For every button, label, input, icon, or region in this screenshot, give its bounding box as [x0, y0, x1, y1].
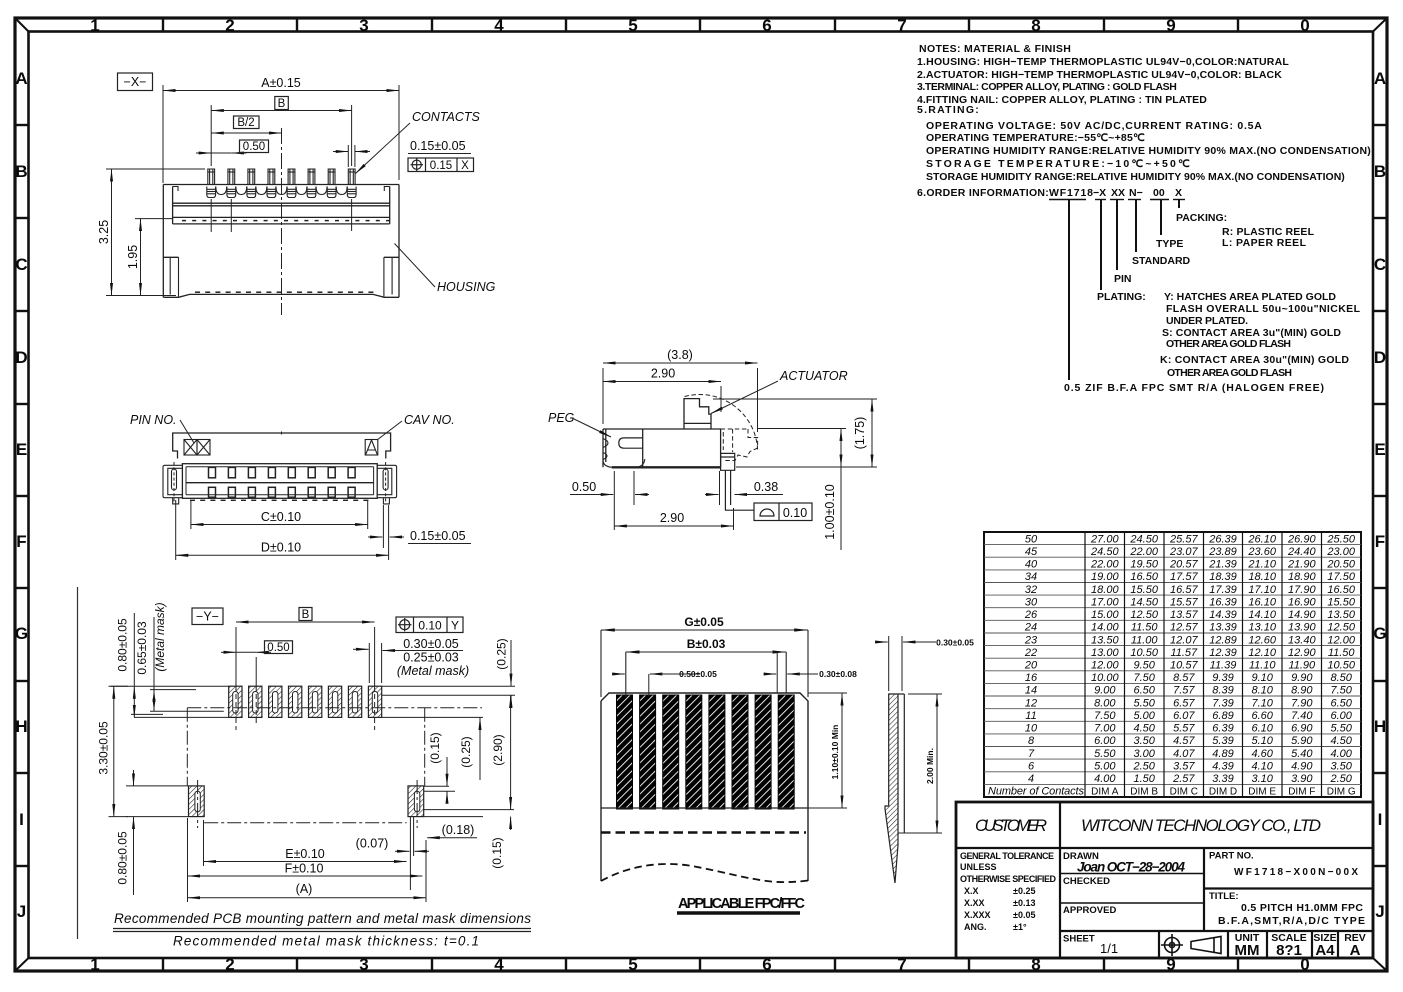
svg-text:23.60: 23.60	[1247, 546, 1276, 558]
svg-text:7.39: 7.39	[1212, 697, 1233, 709]
svg-text:3.50: 3.50	[1133, 735, 1155, 747]
svg-text:7: 7	[897, 16, 906, 35]
svg-text:16: 16	[1025, 672, 1038, 684]
projection symbol	[1161, 934, 1221, 956]
svg-text:18.10: 18.10	[1248, 571, 1276, 583]
svg-text:J: J	[17, 902, 26, 921]
svg-text:5.40: 5.40	[1291, 748, 1313, 760]
svg-text:4: 4	[494, 955, 504, 974]
left reference vertical line	[77, 587, 79, 939]
dim 1.10±0.10 Min	[841, 693, 843, 808]
svg-text:Y: HATCHES AREA PLATED GOLD: Y: HATCHES AREA PLATED GOLD	[1164, 291, 1336, 303]
pin no. marker boxes	[184, 440, 210, 456]
svg-text:6.57: 6.57	[1173, 697, 1195, 709]
svg-text:10.50: 10.50	[1130, 647, 1158, 659]
svg-text:14.90: 14.90	[1288, 609, 1316, 621]
svg-text:C: C	[1374, 255, 1386, 274]
svg-text:0.30±0.05: 0.30±0.05	[403, 637, 459, 651]
svg-text:2.50: 2.50	[1329, 773, 1352, 785]
svg-text:3: 3	[359, 16, 368, 35]
svg-text:6.07: 6.07	[1173, 710, 1195, 722]
dim 1.95	[135, 219, 172, 296]
svg-text:E±0.10: E±0.10	[285, 847, 325, 861]
svg-text:0.50: 0.50	[243, 141, 265, 153]
svg-text:4.89: 4.89	[1212, 748, 1233, 760]
svg-text:7.90: 7.90	[1291, 697, 1313, 709]
svg-text:G±0.05: G±0.05	[684, 615, 724, 629]
svg-text:(2.90): (2.90)	[491, 734, 505, 765]
side view body	[603, 429, 721, 467]
svg-text:D: D	[15, 348, 27, 367]
dim B pads	[236, 621, 375, 623]
dim (A)	[188, 897, 427, 899]
svg-text:DIM B: DIM B	[1130, 787, 1158, 798]
dim (0.15) mid	[446, 757, 448, 786]
svg-text:2: 2	[225, 955, 234, 974]
profile frame 0.10	[754, 503, 812, 521]
svg-text:4: 4	[1028, 773, 1034, 785]
svg-text:6.10: 6.10	[1251, 723, 1273, 735]
svg-text:12: 12	[1025, 697, 1037, 709]
dim 0.65±0.03	[153, 617, 155, 711]
svg-text:WF1718: WF1718	[1049, 187, 1093, 199]
svg-text:24.50: 24.50	[1090, 546, 1119, 558]
svg-text:0.80±0.05: 0.80±0.05	[116, 831, 130, 885]
svg-text:B: B	[1374, 162, 1386, 181]
svg-text:6.50: 6.50	[1133, 685, 1155, 697]
svg-text:6.39: 6.39	[1212, 723, 1233, 735]
actuator open dashed	[685, 394, 758, 460]
svg-text:0.5 PITCH H1.0MM FPC: 0.5 PITCH H1.0MM FPC	[1241, 902, 1363, 914]
svg-text:(0.15): (0.15)	[490, 837, 504, 868]
svg-text:23.89: 23.89	[1208, 546, 1237, 558]
svg-text:11.39: 11.39	[1210, 660, 1237, 672]
svg-text:5.50: 5.50	[1133, 697, 1155, 709]
title block unit/scale/size/rev labels	[1235, 932, 1366, 944]
svg-text:7.40: 7.40	[1291, 710, 1313, 722]
svg-text:3.39: 3.39	[1212, 773, 1233, 785]
svg-text:6.89: 6.89	[1212, 710, 1233, 722]
svg-text:7.00: 7.00	[1094, 723, 1116, 735]
svg-text:GENERAL TOLERANCE: GENERAL TOLERANCE	[960, 851, 1054, 861]
svg-text:7.50: 7.50	[1133, 672, 1155, 684]
svg-text:12.90: 12.90	[1288, 647, 1316, 659]
svg-text:10.00: 10.00	[1091, 672, 1119, 684]
border tick marks top/bottom	[163, 18, 1238, 971]
pcb chain outline	[187, 708, 482, 828]
svg-text:2.90: 2.90	[651, 367, 675, 381]
svg-text:XX: XX	[1111, 187, 1125, 199]
svg-text:FLASH OVERALL 50u~100u"NICKE: FLASH OVERALL 50u~100u"NICKEL	[1166, 303, 1361, 315]
border zone letters right	[1373, 69, 1386, 921]
svg-text:10.57: 10.57	[1170, 660, 1198, 672]
dim 2.90 bottom	[614, 525, 733, 527]
feature control frame 0.10 Y	[396, 617, 463, 633]
svg-text:0.80±0.05: 0.80±0.05	[116, 618, 130, 672]
svg-text:X.X: X.X	[964, 886, 979, 896]
housing bumps between pins	[216, 187, 347, 195]
svg-text:13.39: 13.39	[1209, 622, 1237, 634]
extension lines right	[713, 399, 877, 467]
svg-text:14.10: 14.10	[1248, 609, 1276, 621]
svg-text:00: 00	[1153, 187, 1165, 199]
svg-text:3.00: 3.00	[1133, 748, 1155, 760]
svg-text:5.50: 5.50	[1330, 723, 1352, 735]
svg-text:G: G	[1373, 624, 1386, 643]
cross-section view	[97, 73, 496, 315]
svg-text:E: E	[16, 440, 27, 459]
svg-text:DIM D: DIM D	[1209, 787, 1237, 798]
svg-text:−Y−: −Y−	[196, 610, 219, 624]
svg-text:11: 11	[1025, 710, 1036, 722]
svg-text:0.10: 0.10	[783, 506, 807, 520]
svg-text:B: B	[15, 162, 27, 181]
svg-text:16.90: 16.90	[1288, 596, 1316, 608]
fpc tail dim 2.00 Min	[936, 694, 938, 833]
dim (2.90)	[510, 696, 512, 810]
front view main body	[182, 464, 377, 499]
fpc break wavy line	[601, 864, 808, 882]
svg-text:0.15±0.05: 0.15±0.05	[410, 529, 466, 543]
svg-text:11.50: 11.50	[1328, 647, 1356, 659]
dim 1.00±0.10	[840, 429, 842, 551]
svg-text:B: B	[302, 609, 310, 621]
svg-text:ACTUATOR: ACTUATOR	[779, 369, 848, 383]
svg-text:12.00: 12.00	[1091, 660, 1119, 672]
svg-text:5.00: 5.00	[1133, 710, 1155, 722]
svg-text:6.00: 6.00	[1330, 710, 1352, 722]
fpc tail strip	[885, 694, 898, 883]
svg-text:2.90: 2.90	[660, 511, 684, 525]
svg-text:12.50: 12.50	[1327, 622, 1355, 634]
svg-text:4.07: 4.07	[1173, 748, 1195, 760]
svg-text:8.00: 8.00	[1094, 697, 1116, 709]
svg-text:Recommended PCB mounting pa: Recommended PCB mounting pattern and met…	[114, 911, 531, 926]
svg-text:45: 45	[1025, 546, 1038, 558]
svg-text:4: 4	[494, 16, 504, 35]
svg-text:(0.18): (0.18)	[442, 823, 475, 837]
svg-text:20.57: 20.57	[1169, 559, 1198, 571]
svg-text:4.00: 4.00	[1330, 748, 1352, 760]
peg slot	[619, 438, 643, 448]
svg-text:0.38: 0.38	[754, 480, 778, 494]
svg-text:34: 34	[1025, 571, 1037, 583]
svg-text:UNLESS: UNLESS	[960, 862, 997, 872]
border tick marks left/right	[15, 125, 1387, 866]
svg-text:(0.25): (0.25)	[495, 638, 509, 669]
svg-text:13.50: 13.50	[1327, 609, 1355, 621]
dimension table values	[1024, 533, 1356, 785]
dim 0.30±0.08 fpc	[764, 652, 818, 693]
svg-text:0.25±0.03: 0.25±0.03	[403, 651, 459, 665]
svg-text:15.50: 15.50	[1327, 596, 1355, 608]
svg-text:16.39: 16.39	[1209, 596, 1237, 608]
svg-text:12.89: 12.89	[1209, 634, 1237, 646]
svg-text:8: 8	[1031, 16, 1040, 35]
svg-text:CHECKED: CHECKED	[1063, 876, 1110, 887]
svg-text:7.50: 7.50	[1330, 685, 1352, 697]
dim (0.25) top right	[510, 640, 512, 686]
svg-text:5.50: 5.50	[1094, 748, 1116, 760]
svg-text:9.39: 9.39	[1212, 672, 1233, 684]
svg-text:16.57: 16.57	[1170, 584, 1198, 596]
svg-text:13.40: 13.40	[1288, 634, 1316, 646]
order information part code	[1049, 187, 1182, 199]
svg-text:CAV NO.: CAV NO.	[404, 413, 455, 427]
housing serrations	[182, 221, 390, 293]
order code underlines	[1049, 199, 1185, 201]
svg-text:4.00: 4.00	[1094, 773, 1116, 785]
dim 0.15±0.05 pin thickness	[333, 145, 370, 167]
svg-text:8.10: 8.10	[1251, 685, 1273, 697]
svg-text:27.00: 27.00	[1090, 533, 1119, 545]
svg-text:26.90: 26.90	[1287, 533, 1316, 545]
svg-text:1.95: 1.95	[126, 245, 140, 269]
svg-text:1.00±0.10: 1.00±0.10	[823, 484, 837, 540]
svg-text:2.57: 2.57	[1172, 773, 1195, 785]
svg-text:SHEET: SHEET	[1063, 934, 1095, 945]
svg-text:A±0.15: A±0.15	[261, 76, 301, 90]
svg-text:16.50: 16.50	[1327, 584, 1355, 596]
border zone letters left	[15, 69, 28, 921]
svg-text:PACKING:: PACKING:	[1176, 212, 1227, 224]
fpc contact bars	[617, 695, 795, 809]
svg-text:K: CONTACT AREA 30u"(MIN) G: K: CONTACT AREA 30u"(MIN) GOLD	[1160, 354, 1349, 366]
front view	[130, 413, 471, 560]
svg-text:9.00: 9.00	[1094, 685, 1116, 697]
svg-text:3.57: 3.57	[1173, 761, 1195, 773]
svg-text:F±0.10: F±0.10	[285, 862, 324, 876]
svg-text:±1°: ±1°	[1013, 922, 1027, 932]
svg-text:6: 6	[762, 955, 771, 974]
svg-text:1: 1	[90, 955, 99, 974]
fpc view	[601, 615, 974, 913]
svg-text:H: H	[15, 717, 27, 736]
svg-text:25.57: 25.57	[1169, 533, 1198, 545]
svg-text:PEG: PEG	[548, 411, 575, 425]
svg-text:3.25: 3.25	[97, 220, 111, 244]
svg-text:A: A	[1374, 69, 1386, 88]
svg-text:5.39: 5.39	[1212, 735, 1233, 747]
svg-text:12.07: 12.07	[1170, 634, 1198, 646]
svg-text:19.50: 19.50	[1130, 559, 1158, 571]
svg-text:13.00: 13.00	[1091, 647, 1119, 659]
svg-text:8.90: 8.90	[1291, 685, 1313, 697]
svg-text:I: I	[19, 810, 24, 829]
svg-text:6.60: 6.60	[1251, 710, 1273, 722]
svg-text:10.50: 10.50	[1327, 660, 1355, 672]
svg-text:15.50: 15.50	[1130, 584, 1158, 596]
svg-text:20: 20	[1024, 660, 1038, 672]
side view	[548, 348, 877, 550]
dim C±0.10	[191, 500, 368, 529]
svg-text:B: B	[278, 98, 286, 110]
feature control frame 0.15 X	[408, 158, 474, 172]
pcb outline solid lines	[111, 686, 515, 816]
svg-text:7.10: 7.10	[1251, 697, 1273, 709]
fpc dashed line	[601, 831, 806, 833]
svg-text:(3.8): (3.8)	[667, 348, 693, 362]
svg-text:26.39: 26.39	[1208, 533, 1237, 545]
svg-text:13.10: 13.10	[1248, 622, 1276, 634]
svg-text:16.50: 16.50	[1130, 571, 1158, 583]
svg-text:G: G	[15, 624, 28, 643]
svg-text:A4: A4	[1315, 942, 1335, 959]
pcb pads row	[229, 686, 382, 717]
svg-text:14.50: 14.50	[1130, 596, 1158, 608]
svg-text:B/2: B/2	[237, 117, 254, 129]
dim 0.50 pads	[221, 651, 271, 653]
svg-text:APPROVED: APPROVED	[1063, 905, 1116, 916]
svg-text:B.F.A,SMT,R/A,D/C TYPE: B.F.A,SMT,R/A,D/C TYPE	[1218, 915, 1365, 927]
svg-text:X: X	[461, 160, 469, 172]
svg-text:9.90: 9.90	[1291, 672, 1313, 684]
svg-text:OPERATING HUMIDITY RANGE:REL: OPERATING HUMIDITY RANGE:RELATIVE HUMIDI…	[926, 145, 1371, 157]
dim (0.25) mid	[479, 723, 481, 780]
svg-text:L: PAPER REEL: L: PAPER REEL	[1222, 237, 1307, 249]
svg-text:0.15: 0.15	[430, 160, 452, 172]
dim F±0.10	[188, 818, 423, 902]
pcb big pad left	[189, 786, 205, 817]
svg-text:0.50: 0.50	[572, 480, 596, 494]
dim (0.07)	[395, 817, 429, 890]
svg-text:9.50: 9.50	[1133, 660, 1155, 672]
svg-text:4.10: 4.10	[1251, 761, 1273, 773]
dim G±0.05	[601, 630, 808, 697]
svg-text:5.57: 5.57	[1173, 723, 1195, 735]
fpc tail thickness dim 0.30±0.05	[875, 636, 936, 691]
svg-text:13.57: 13.57	[1170, 609, 1198, 621]
svg-text:X.XXX: X.XXX	[964, 910, 991, 920]
svg-text:16.10: 16.10	[1248, 596, 1276, 608]
svg-text:11.10: 11.10	[1249, 660, 1277, 672]
svg-text:0: 0	[1300, 16, 1309, 35]
pcb big pad right	[408, 786, 424, 817]
svg-text:NOTES: MATERIAL & FINISH: NOTES: MATERIAL & FINISH	[919, 43, 1071, 55]
svg-text:(0.15): (0.15)	[428, 732, 442, 763]
svg-text:E: E	[1374, 440, 1385, 459]
svg-text:MM: MM	[1235, 942, 1260, 959]
fpc body outline	[601, 693, 808, 881]
pin extension dashed lines	[211, 199, 351, 232]
svg-text:4.50: 4.50	[1330, 735, 1352, 747]
fpc bar bottom line	[601, 807, 808, 809]
svg-text:5.10: 5.10	[1251, 735, 1273, 747]
svg-text:1.50: 1.50	[1133, 773, 1155, 785]
dim 0.80±0.05 bottom left	[133, 770, 135, 895]
svg-text:F: F	[1375, 532, 1385, 551]
svg-text:X: X	[1175, 187, 1182, 199]
svg-text:4.90: 4.90	[1291, 761, 1313, 773]
svg-text:H: H	[1374, 717, 1386, 736]
svg-text:11.90: 11.90	[1288, 660, 1316, 672]
svg-text:B±0.03: B±0.03	[687, 637, 726, 651]
svg-text:23.07: 23.07	[1169, 546, 1198, 558]
svg-text:I: I	[1378, 810, 1383, 829]
svg-text:24.50: 24.50	[1129, 533, 1158, 545]
svg-text:PLATING:: PLATING:	[1097, 291, 1146, 303]
dimension table	[984, 532, 1361, 798]
dim 3.25	[106, 169, 205, 296]
svg-text:C: C	[15, 255, 27, 274]
svg-text:20.50: 20.50	[1326, 559, 1355, 571]
svg-text:4.50: 4.50	[1133, 723, 1155, 735]
svg-text:STANDARD: STANDARD	[1132, 255, 1191, 267]
contact leg	[725, 470, 753, 510]
pcb pattern view	[78, 587, 532, 949]
svg-text:DIM G: DIM G	[1327, 787, 1356, 798]
svg-text:2: 2	[225, 16, 234, 35]
svg-text:Joan OCT−28−2004: Joan OCT−28−2004	[1077, 860, 1185, 875]
dim 0.50±0.05 fpc	[612, 674, 700, 696]
svg-text:0.30±0.05: 0.30±0.05	[936, 638, 974, 648]
svg-text:7.50: 7.50	[1094, 710, 1116, 722]
svg-text:PIN: PIN	[1114, 273, 1132, 285]
svg-text:50: 50	[1025, 533, 1038, 545]
svg-text:5.RATING:: 5.RATING:	[917, 104, 979, 116]
svg-text:25.50: 25.50	[1326, 533, 1355, 545]
svg-text:15.00: 15.00	[1091, 609, 1119, 621]
svg-text:STORAGE TEMPERATURE:−10℃~+50℃: STORAGE TEMPERATURE:−10℃~+50℃	[926, 158, 1190, 170]
cav no. marker box	[365, 440, 378, 456]
svg-text:OPERATING TEMPERATURE:−55℃~+8: OPERATING TEMPERATURE:−55℃~+85℃	[926, 132, 1145, 144]
svg-text:TYPE: TYPE	[1156, 238, 1183, 250]
svg-text:26: 26	[1024, 609, 1038, 621]
svg-text:14.39: 14.39	[1209, 609, 1237, 621]
svg-text:ANG.: ANG.	[964, 922, 987, 932]
svg-text:−X−: −X−	[124, 75, 147, 89]
svg-text:22.00: 22.00	[1129, 546, 1158, 558]
svg-text:0.50±0.05: 0.50±0.05	[679, 669, 717, 679]
svg-text:11.00: 11.00	[1131, 634, 1159, 646]
cross-section view housing outline	[163, 185, 399, 298]
svg-text:12.10: 12.10	[1248, 647, 1276, 659]
title block frame	[956, 802, 1373, 958]
svg-text:(Metal mask): (Metal mask)	[397, 664, 469, 678]
svg-text:3: 3	[359, 955, 368, 974]
svg-text:32: 32	[1025, 584, 1037, 596]
front view top plate (actuator)	[173, 433, 391, 459]
dim 3.30±0.05	[113, 686, 115, 816]
svg-text:30: 30	[1025, 596, 1038, 608]
dim 0.30±0.05	[353, 648, 369, 650]
svg-text:23: 23	[1024, 634, 1038, 646]
svg-text:OTHER AREA GOLD FLASH: OTHER AREA GOLD FLASH	[1166, 338, 1291, 350]
contact pins row	[207, 169, 356, 198]
border zone numbers top	[90, 16, 1309, 35]
svg-text:17.10: 17.10	[1248, 584, 1276, 596]
dim (0.18)	[427, 837, 477, 839]
dim B/2	[211, 132, 281, 134]
svg-text:12.00: 12.00	[1327, 634, 1355, 646]
front view contact windows	[209, 467, 356, 497]
svg-text:3.30±0.05: 3.30±0.05	[97, 721, 111, 775]
svg-text:0.30±0.08: 0.30±0.08	[819, 669, 857, 679]
svg-text:15.57: 15.57	[1170, 596, 1198, 608]
border zone numbers bottom	[90, 955, 1309, 974]
svg-text:5: 5	[628, 955, 637, 974]
dim 0.50	[196, 152, 247, 154]
svg-text:D±0.10: D±0.10	[261, 541, 301, 555]
svg-text:1.HOUSING: HIGH−TEMP THERMOPL: 1.HOUSING: HIGH−TEMP THERMOPLASTIC UL94V…	[917, 56, 1289, 68]
svg-text:C±0.10: C±0.10	[261, 510, 301, 524]
svg-text:13.90: 13.90	[1288, 622, 1316, 634]
svg-text:OTHER AREA GOLD FLASH: OTHER AREA GOLD FLASH	[1167, 367, 1292, 379]
dim (3.8)	[603, 363, 758, 432]
svg-text:OPERATING VOLTAGE: 50V AC/DC: OPERATING VOLTAGE: 50V AC/DC,CURRENT RAT…	[926, 120, 1262, 132]
dim D±0.10	[176, 500, 389, 560]
svg-text:8?1: 8?1	[1276, 942, 1302, 959]
